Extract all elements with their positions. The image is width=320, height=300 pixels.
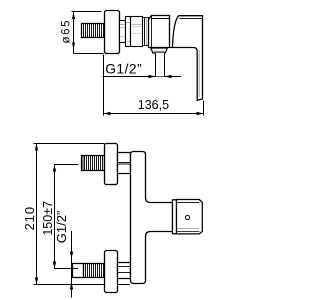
- label G1/2" (rotated, bottom view): [54, 211, 69, 244]
- dim 150±7 line with arrows: [53, 165, 56, 269]
- svg-text:210: 210: [22, 206, 37, 231]
- dim ø65 extension bottom: [74, 53, 104, 55]
- neck between flange and nut: [120, 21, 126, 43]
- leader 150±7 overlay into pipe end: [73, 268, 79, 270]
- dim 150±7 leader top: [55, 164, 79, 166]
- dim 210 line with arrows: [35, 144, 38, 285]
- dim 150±7 leader bottom: [55, 268, 79, 270]
- label 136,5: [138, 98, 169, 112]
- dim G1/2 line (top view) with arrows: [103, 75, 182, 78]
- bottom wall flange (bottom view): [105, 251, 118, 293]
- svg-text:150±7: 150±7: [41, 201, 55, 236]
- dim 136,5 extension right: [203, 101, 205, 116]
- label G1/2" (top view): [105, 62, 142, 77]
- label 210 (rotated): [22, 206, 37, 231]
- ring 2: [145, 18, 149, 46]
- svg-text:136,5: 136,5: [138, 98, 169, 112]
- svg-text:ø65: ø65: [61, 19, 73, 44]
- outlet pipe (top view): [156, 53, 165, 77]
- svg-text:G1/2”: G1/2”: [105, 62, 142, 77]
- dim G1/2 leader line (bottom view): [70, 231, 73, 298]
- svg-text:G1/2”: G1/2”: [54, 211, 69, 244]
- inlet pipe thread (top view): [82, 24, 105, 38]
- dim ø65 line with arrows: [72, 12, 75, 54]
- label 150±7 (rotated): [41, 201, 55, 236]
- wire: body-to-handle bottom line: [170, 47, 173, 49]
- ring: [143, 18, 145, 46]
- valve body (top view): [149, 16, 170, 48]
- bottom connection nut (bottom view): [118, 263, 131, 279]
- top wall flange (bottom view): [105, 144, 118, 185]
- spout ring: [173, 200, 177, 234]
- label ø65 (rotated): [61, 19, 73, 44]
- lever handle (top view): [172, 16, 202, 101]
- dim ø65 extension top: [72, 11, 102, 13]
- dim 210 extension top: [34, 143, 105, 145]
- wall flange (top view): [105, 11, 120, 54]
- top connection nut (bottom view): [118, 153, 131, 174]
- dim 136,5 extension left: [103, 55, 105, 116]
- mixer body (bottom view): [131, 152, 173, 284]
- spout outlet hole: [185, 215, 189, 219]
- cylinder section: [131, 17, 143, 47]
- spout end box: [177, 200, 203, 234]
- bottom inlet pipe plain end (bottom view): [73, 264, 84, 278]
- bottom inlet pipe thread (bottom view): [84, 264, 105, 278]
- connection nut (top view): [126, 17, 131, 47]
- dim 210 extension bottom: [34, 284, 131, 286]
- outlet collar below body: [151, 48, 168, 53]
- dim 136,5 line with arrows: [104, 112, 204, 115]
- top inlet pipe thread (bottom view): [82, 156, 105, 171]
